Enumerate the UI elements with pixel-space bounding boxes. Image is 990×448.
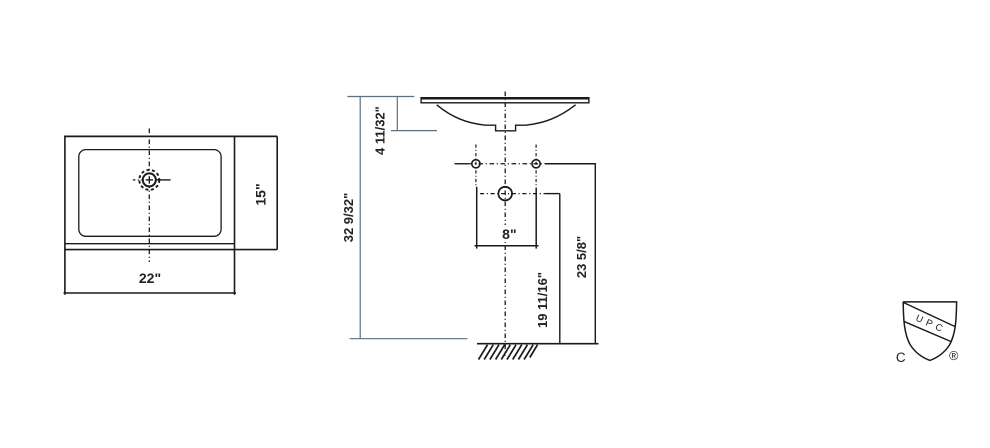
- svg-text:®: ®: [949, 349, 959, 363]
- svg-text:4 11/32": 4 11/32": [372, 106, 387, 155]
- sink top-view bottom edge / 22in dim box top: [65, 249, 277, 251]
- drain line solid right segment: [545, 193, 560, 195]
- drain horizontal dash-dot line: [480, 193, 545, 195]
- sink top-view outer outline right edge: [234, 136, 236, 294]
- faucet hole dashed bolt circle: [139, 170, 159, 190]
- faucet hole horizontal crosshair dash left: [133, 179, 143, 181]
- left faucet hole vertical dash centerline: [475, 145, 477, 188]
- pedestal box bottom edge (8in dim line): [475, 245, 539, 247]
- pedestal box left edge: [476, 187, 478, 249]
- label 8 inch backing: [498, 225, 521, 242]
- svg-text:8": 8": [502, 226, 516, 242]
- faucet hole solid circle: [143, 173, 156, 186]
- svg-text:32 9/32": 32 9/32": [341, 193, 356, 243]
- svg-text:23 5/8": 23 5/8": [574, 236, 589, 278]
- svg-text:22": 22": [139, 270, 161, 286]
- right faucet hole vertical dash centerline: [535, 145, 537, 190]
- left faucet hole circle: [472, 160, 480, 168]
- inner basin rounded rectangle: [79, 150, 221, 237]
- 15in dim box right edge: [276, 136, 278, 249]
- dim line 4 11/32 vertical (gray): [396, 97, 398, 131]
- floor hatching: [479, 345, 538, 360]
- top-view vertical centerline: [148, 129, 150, 263]
- dim line 19 11/16 vertical: [559, 194, 561, 344]
- svg-text:15": 15": [253, 183, 269, 205]
- pedestal box right edge: [535, 188, 537, 249]
- right faucet hole circle: [532, 160, 540, 168]
- faucet hole crosshair plus: [146, 176, 153, 183]
- UPC shield band upper diagonal: [903, 302, 956, 326]
- sink front-view rim slab: [421, 98, 589, 103]
- sink front-view bowl profile with drain recess: [437, 105, 576, 131]
- sink top-view outer outline left edge: [64, 136, 66, 294]
- floor line: [477, 343, 599, 345]
- faucet holes horizontal centerline solid left: [455, 163, 468, 165]
- sink top-view front rim edge: [65, 243, 235, 245]
- UPC shield band lower diagonal: [904, 321, 952, 341]
- 22in dim box bottom edge: [64, 292, 237, 294]
- faucet hole horizontal crosshair solid right: [156, 179, 171, 181]
- faucet holes horizontal line solid right to 23 5/8 dim: [545, 163, 596, 165]
- sink front-view rim top thick edge: [421, 97, 589, 99]
- svg-text:19 11/16": 19 11/16": [535, 272, 550, 328]
- drain hole circle: [498, 187, 512, 201]
- dim extension line top (gray): [347, 96, 414, 98]
- dim extension line bottom (gray): [350, 338, 468, 340]
- UPC shield outline: [903, 302, 957, 361]
- dim line 23 5/8 vertical: [594, 164, 596, 344]
- dim extension line at bowl bottom (gray): [391, 130, 437, 132]
- faucet holes horizontal centerline dash-dot middle: [468, 163, 546, 165]
- front-view vertical centerline: [504, 92, 506, 357]
- sink top-view top edge (extends over 15in dim box): [64, 135, 277, 137]
- dim line 32 9/32 vertical (gray): [359, 97, 361, 339]
- svg-text:C: C: [896, 350, 906, 365]
